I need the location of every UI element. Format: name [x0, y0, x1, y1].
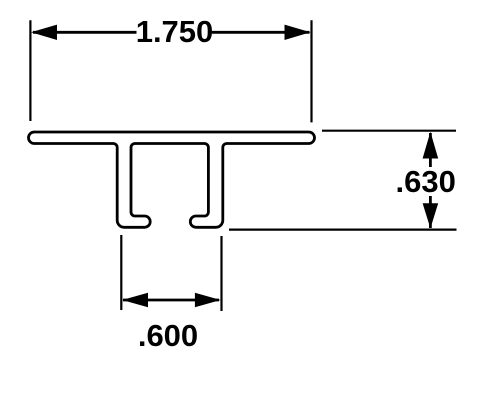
svg-text:.630: .630: [396, 164, 456, 199]
dim .600: dimension line: [123, 299, 219, 302]
dim .630: vertical dimension line upper segment: [429, 133, 432, 167]
dim 1.750: left extension line: [29, 20, 31, 121]
dim .600: left extension line: [120, 235, 122, 310]
dim .630: top reference line: [322, 130, 456, 132]
dim 1.750: right extension line: [310, 20, 312, 122]
dim 1.750: left dimension line segment: [33, 31, 137, 34]
dim 1.750: right dimension line segment: [212, 31, 310, 34]
dim 1.750: right arrowhead: [285, 25, 311, 40]
dim .630: down arrowhead: [423, 203, 439, 228]
svg-text:.600: .600: [138, 318, 198, 353]
extrusion profile outline (top flange, two legs with inward feet): [29, 132, 315, 227]
dim .600: right arrowhead: [195, 293, 221, 307]
dim .600: right extension line: [220, 236, 222, 311]
dim 1.750: left arrowhead: [31, 25, 57, 40]
svg-text:1.750: 1.750: [136, 14, 214, 49]
dim .630: up arrowhead: [423, 132, 439, 159]
dim .630: bottom reference line: [229, 229, 457, 231]
dim .630: vertical dimension line lower segment: [429, 196, 432, 228]
dim .600: left arrowhead: [122, 293, 148, 307]
